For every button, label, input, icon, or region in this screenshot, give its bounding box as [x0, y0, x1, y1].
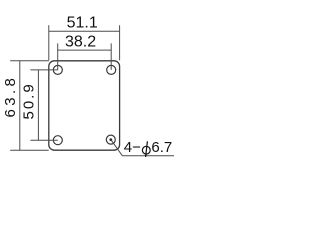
svg-text:51.1: 51.1: [67, 15, 98, 32]
svg-text:50.9: 50.9: [21, 82, 38, 119]
svg-text:6.7: 6.7: [151, 139, 172, 156]
svg-text:4−: 4−: [124, 139, 141, 156]
svg-text:38.2: 38.2: [65, 34, 96, 51]
svg-text:63.8: 63.8: [2, 75, 19, 118]
